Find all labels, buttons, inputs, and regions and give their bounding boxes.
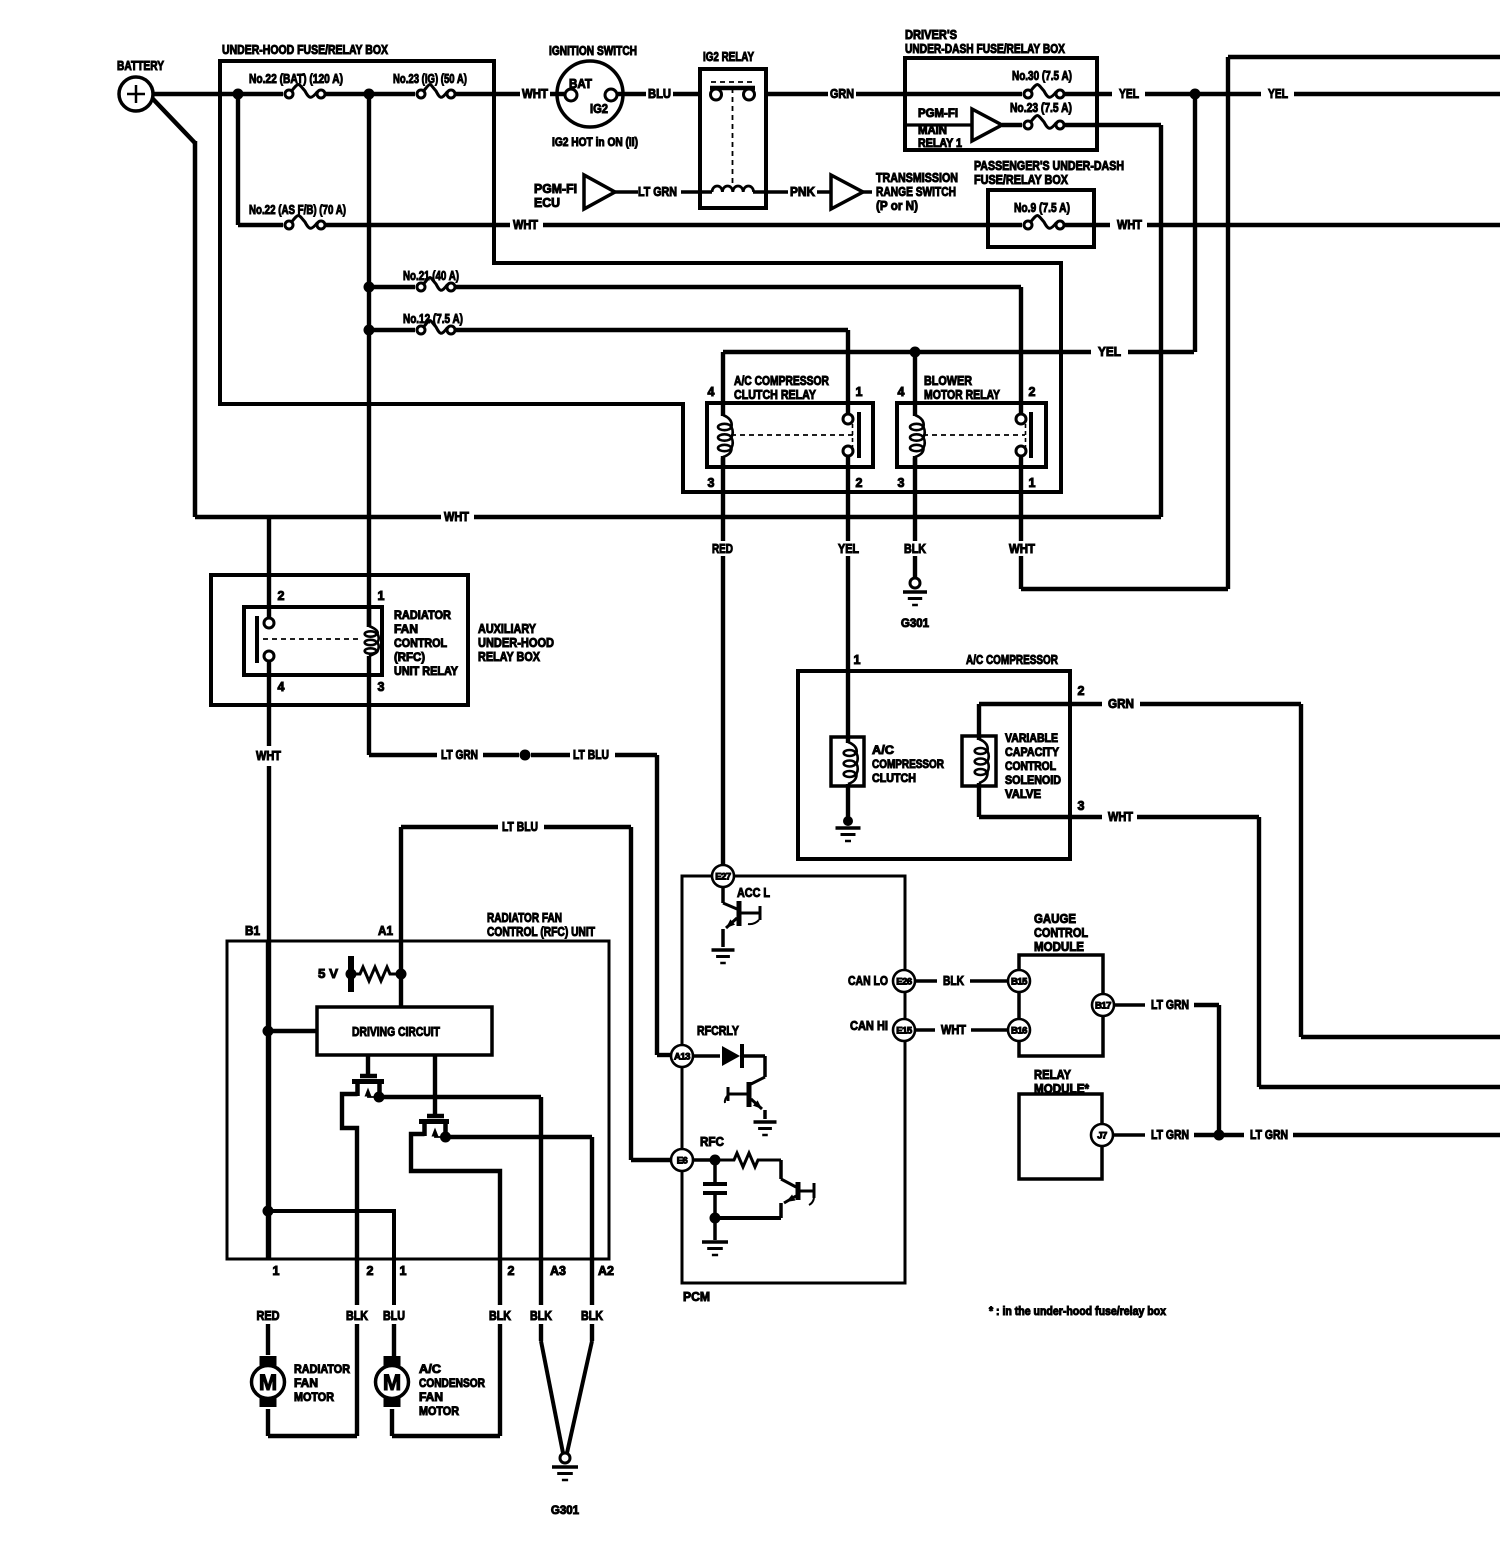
svg-text:FUSE/RELAY BOX: FUSE/RELAY BOX: [974, 173, 1069, 187]
svg-text:IGNITION SWITCH: IGNITION SWITCH: [549, 44, 637, 58]
svg-text:TRANSMISSION: TRANSMISSION: [876, 171, 958, 185]
svg-text:WHT: WHT: [1009, 542, 1035, 556]
svg-text:A3: A3: [550, 1264, 566, 1278]
svg-text:DRIVING CIRCUIT: DRIVING CIRCUIT: [352, 1025, 440, 1039]
svg-text:A/C: A/C: [872, 745, 894, 757]
svg-text:No.23 (IG) (50 A): No.23 (IG) (50 A): [393, 72, 467, 86]
svg-text:BAT: BAT: [569, 77, 592, 91]
svg-text:ACC L: ACC L: [737, 886, 770, 900]
svg-text:CONDENSOR: CONDENSOR: [419, 1378, 486, 1390]
svg-text:A13: A13: [674, 1051, 690, 1062]
svg-text:(RFC): (RFC): [394, 652, 425, 664]
svg-text:RED: RED: [712, 542, 733, 556]
svg-text:MOTOR: MOTOR: [294, 1392, 335, 1404]
svg-text:MAIN: MAIN: [918, 125, 947, 137]
svg-text:No.22 (BAT) (120 A): No.22 (BAT) (120 A): [249, 72, 343, 86]
svg-text:PGM-FI: PGM-FI: [534, 182, 577, 196]
svg-text:E26: E26: [896, 976, 912, 987]
svg-text:1: 1: [1029, 476, 1036, 490]
svg-text:MOTOR RELAY: MOTOR RELAY: [924, 388, 1001, 402]
svg-text:4: 4: [278, 680, 285, 694]
svg-text:UNDER-DASH FUSE/RELAY BOX: UNDER-DASH FUSE/RELAY BOX: [905, 42, 1066, 56]
svg-text:2: 2: [278, 589, 285, 603]
svg-text:WHT: WHT: [941, 1023, 966, 1037]
svg-text:SOLENOID: SOLENOID: [1005, 775, 1061, 787]
svg-text:CAPACITY: CAPACITY: [1005, 747, 1059, 759]
svg-text:G301: G301: [901, 618, 930, 630]
svg-text:RELAY: RELAY: [1034, 1068, 1072, 1082]
svg-text:RADIATOR FAN: RADIATOR FAN: [487, 911, 562, 925]
svg-text:MODULE*: MODULE*: [1034, 1082, 1089, 1096]
svg-text:A1: A1: [378, 924, 393, 938]
svg-text:ECU: ECU: [534, 196, 560, 210]
svg-text:BLK: BLK: [489, 1309, 511, 1323]
svg-text:UNDER-HOOD FUSE/RELAY BOX: UNDER-HOOD FUSE/RELAY BOX: [222, 43, 389, 57]
svg-text:3: 3: [708, 476, 715, 490]
svg-text:LT GRN: LT GRN: [441, 748, 478, 762]
svg-text:No.12 (7.5 A): No.12 (7.5 A): [403, 312, 463, 326]
svg-text:WHT: WHT: [444, 510, 469, 524]
svg-text:WHT: WHT: [1108, 810, 1133, 824]
svg-text:RADIATOR: RADIATOR: [294, 1364, 351, 1376]
svg-text:M: M: [259, 1370, 277, 1395]
svg-text:YEL: YEL: [1098, 345, 1121, 359]
svg-text:No.30 (7.5 A): No.30 (7.5 A): [1012, 69, 1072, 83]
svg-text:IG2: IG2: [590, 102, 608, 116]
svg-text:CLUTCH RELAY: CLUTCH RELAY: [734, 388, 817, 402]
svg-text:M: M: [383, 1370, 401, 1395]
svg-text:(P or N): (P or N): [876, 199, 918, 213]
svg-text:G301: G301: [551, 1505, 580, 1517]
svg-text:BLU: BLU: [383, 1309, 405, 1323]
svg-text:CLUTCH: CLUTCH: [872, 773, 916, 785]
svg-text:BLOWER: BLOWER: [924, 374, 972, 388]
svg-text:* : in the under-hood fuse/rel: * : in the under-hood fuse/relay box: [989, 1306, 1167, 1318]
svg-text:RFCRLY: RFCRLY: [697, 1024, 740, 1038]
svg-text:DRIVER'S: DRIVER'S: [905, 28, 957, 42]
svg-text:PCM: PCM: [683, 1290, 710, 1304]
svg-text:FAN: FAN: [394, 624, 418, 636]
svg-text:RANGE SWITCH: RANGE SWITCH: [876, 185, 956, 199]
svg-text:LT GRN: LT GRN: [1250, 1128, 1288, 1142]
svg-text:IG2 RELAY: IG2 RELAY: [703, 50, 755, 64]
svg-text:3: 3: [898, 476, 905, 490]
svg-text:RFC: RFC: [700, 1135, 724, 1149]
svg-text:PASSENGER'S UNDER-DASH: PASSENGER'S UNDER-DASH: [974, 159, 1124, 173]
svg-text:1: 1: [856, 385, 863, 399]
svg-text:E27: E27: [715, 871, 731, 882]
svg-text:A/C COMPRESSOR: A/C COMPRESSOR: [966, 653, 1058, 667]
svg-text:E6: E6: [677, 1155, 688, 1166]
svg-text:WHT: WHT: [522, 87, 548, 101]
svg-text:A/C COMPRESSOR: A/C COMPRESSOR: [734, 374, 829, 388]
svg-text:VARIABLE: VARIABLE: [1005, 733, 1058, 745]
svg-text:BLK: BLK: [904, 542, 926, 556]
svg-text:4: 4: [708, 385, 715, 399]
svg-text:FAN: FAN: [419, 1392, 443, 1404]
svg-text:YEL: YEL: [838, 542, 859, 556]
svg-text:MODULE: MODULE: [1034, 940, 1084, 954]
svg-text:AUXILIARY: AUXILIARY: [478, 622, 537, 636]
svg-text:J7: J7: [1097, 1130, 1107, 1141]
svg-text:No.21 (40 A): No.21 (40 A): [403, 269, 459, 283]
svg-text:2: 2: [856, 476, 863, 490]
svg-text:3: 3: [1078, 799, 1085, 813]
svg-text:4: 4: [898, 385, 905, 399]
svg-text:2: 2: [1078, 684, 1085, 698]
svg-text:GRN: GRN: [830, 87, 854, 101]
svg-text:BLK: BLK: [581, 1309, 603, 1323]
svg-text:RADIATOR: RADIATOR: [394, 610, 452, 622]
svg-text:5 V: 5 V: [318, 967, 339, 981]
svg-text:PNK: PNK: [790, 185, 815, 199]
svg-text:1: 1: [854, 653, 861, 667]
svg-text:LT BLU: LT BLU: [502, 820, 538, 834]
svg-text:CONTROL: CONTROL: [1005, 761, 1056, 773]
svg-text:BLK: BLK: [943, 974, 964, 988]
svg-text:2: 2: [367, 1264, 374, 1278]
svg-text:LT GRN: LT GRN: [638, 185, 677, 199]
svg-text:UNDER-HOOD: UNDER-HOOD: [478, 636, 554, 650]
svg-text:No.9 (7.5 A): No.9 (7.5 A): [1014, 201, 1070, 215]
svg-text:GRN: GRN: [1108, 697, 1134, 711]
svg-text:No.23 (7.5 A): No.23 (7.5 A): [1010, 101, 1072, 115]
svg-text:1: 1: [400, 1264, 407, 1278]
svg-text:CONTROL: CONTROL: [1034, 926, 1088, 940]
svg-text:WHT: WHT: [1117, 218, 1142, 232]
svg-text:E15: E15: [896, 1025, 913, 1036]
svg-text:3: 3: [378, 680, 385, 694]
svg-text:RELAY BOX: RELAY BOX: [478, 650, 541, 664]
svg-text:CAN HI: CAN HI: [850, 1019, 888, 1033]
svg-text:CONTROL: CONTROL: [394, 638, 447, 650]
svg-text:IG2 HOT in ON (II): IG2 HOT in ON (II): [552, 137, 638, 149]
svg-text:WHT: WHT: [256, 749, 281, 763]
svg-text:BLU: BLU: [648, 87, 671, 101]
svg-text:FAN: FAN: [294, 1378, 318, 1390]
svg-text:1: 1: [378, 589, 385, 603]
svg-text:YEL: YEL: [1268, 87, 1288, 101]
svg-text:LT BLU: LT BLU: [573, 748, 609, 762]
svg-text:PGM-FI: PGM-FI: [918, 108, 958, 120]
svg-text:VALVE: VALVE: [1005, 789, 1041, 801]
svg-text:BLK: BLK: [530, 1309, 552, 1323]
svg-text:B16: B16: [1011, 1025, 1027, 1036]
svg-text:1: 1: [273, 1264, 280, 1278]
svg-text:No.22 (AS F/B) (70 A): No.22 (AS F/B) (70 A): [249, 203, 346, 217]
svg-text:RELAY 1: RELAY 1: [918, 138, 963, 150]
svg-text:BATTERY: BATTERY: [117, 59, 165, 73]
svg-text:COMPRESSOR: COMPRESSOR: [872, 759, 945, 771]
svg-text:UNIT RELAY: UNIT RELAY: [394, 666, 458, 678]
svg-text:CAN LO: CAN LO: [848, 974, 888, 988]
svg-text:BLK: BLK: [346, 1309, 368, 1323]
svg-text:A/C: A/C: [419, 1364, 441, 1376]
svg-text:A2: A2: [598, 1264, 614, 1278]
svg-text:B15: B15: [1011, 976, 1028, 987]
svg-text:WHT: WHT: [513, 218, 538, 232]
svg-text:LT GRN: LT GRN: [1151, 1128, 1189, 1142]
svg-text:2: 2: [1029, 385, 1036, 399]
svg-text:B17: B17: [1095, 1000, 1111, 1011]
svg-text:LT GRN: LT GRN: [1151, 998, 1189, 1012]
svg-text:CONTROL (RFC) UNIT: CONTROL (RFC) UNIT: [487, 925, 595, 939]
svg-text:2: 2: [508, 1264, 515, 1278]
svg-text:YEL: YEL: [1119, 87, 1139, 101]
svg-text:RED: RED: [257, 1309, 280, 1323]
svg-text:MOTOR: MOTOR: [419, 1406, 460, 1418]
svg-text:B1: B1: [245, 924, 260, 938]
svg-text:GAUGE: GAUGE: [1034, 912, 1076, 926]
